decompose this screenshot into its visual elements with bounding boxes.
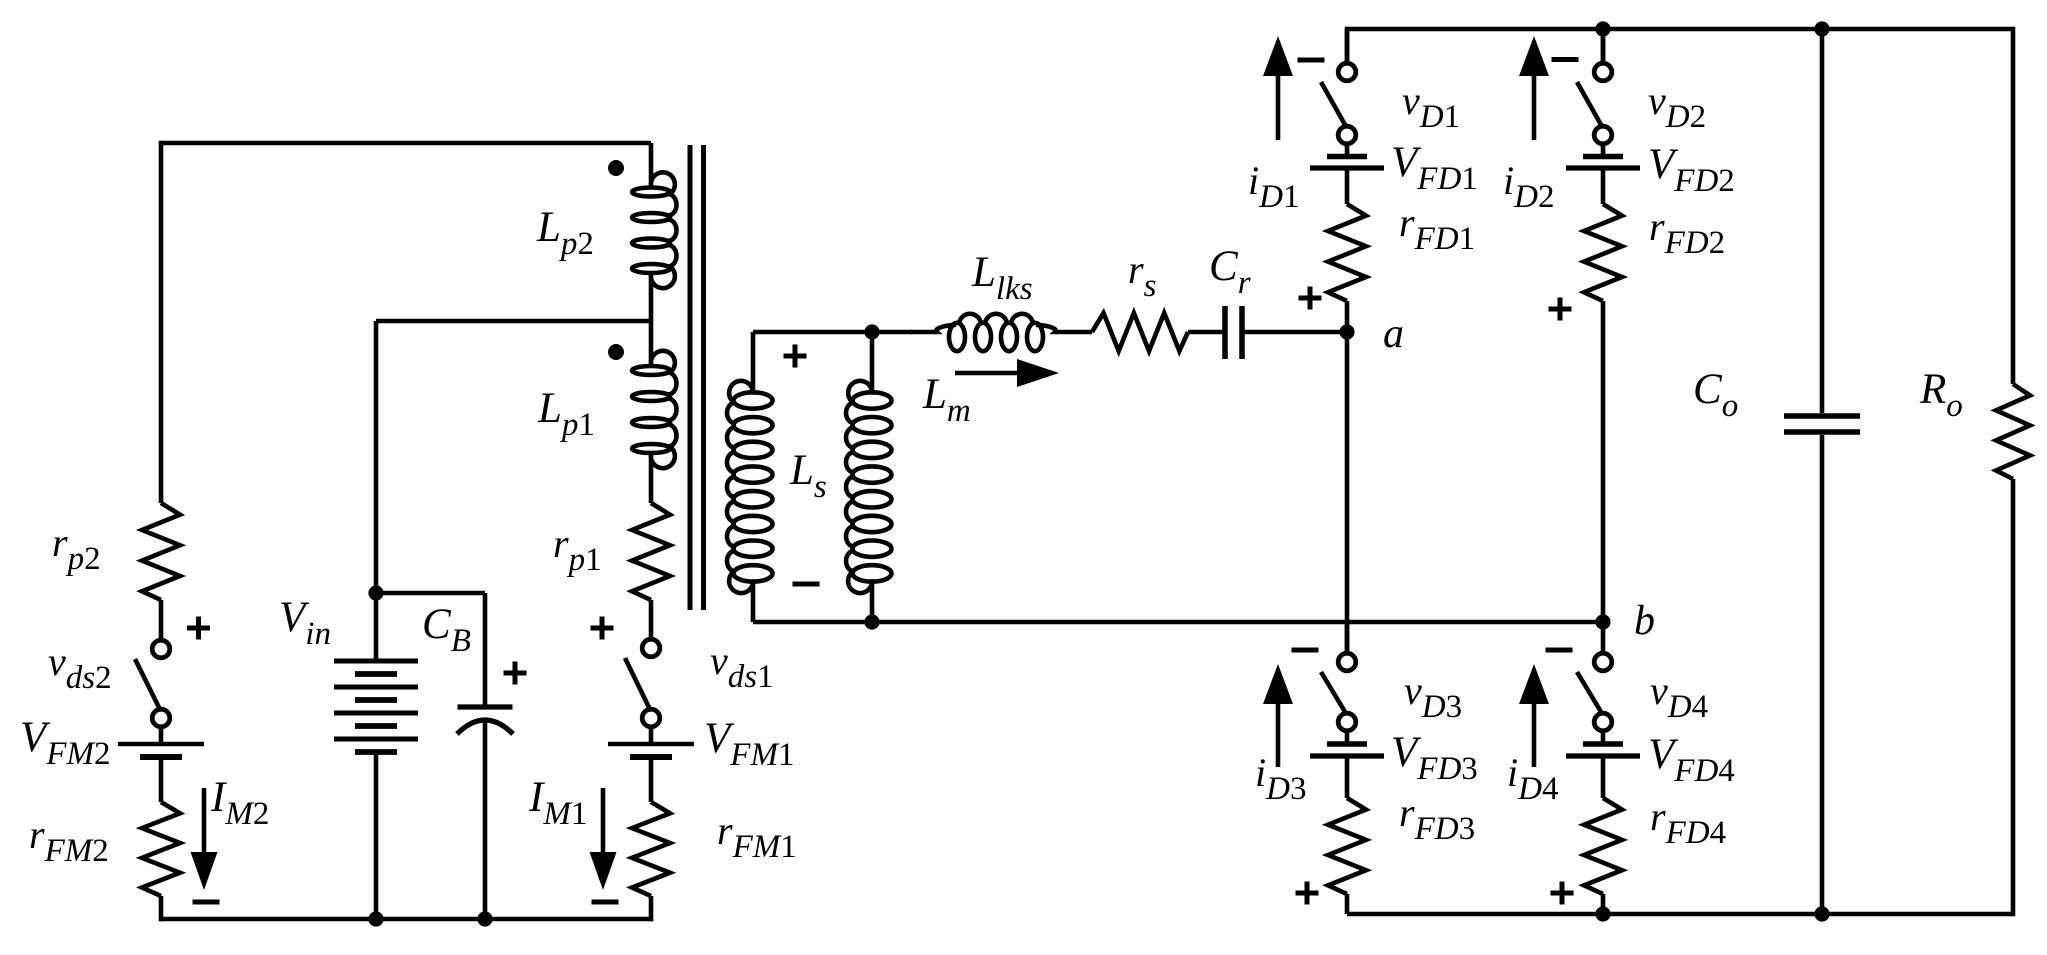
svg-text:iD3: iD3 — [1255, 750, 1306, 807]
svg-text:iD1: iD1 — [1248, 158, 1299, 215]
svg-text:Lp2: Lp2 — [536, 204, 594, 262]
svg-text:VFM1: VFM1 — [704, 715, 794, 773]
svg-text:rFD3: rFD3 — [1399, 790, 1475, 847]
svg-text:Cr: Cr — [1209, 243, 1251, 301]
svg-text:Vin: Vin — [279, 594, 331, 652]
svg-text:rp1: rp1 — [553, 521, 602, 578]
svg-text:IM1: IM1 — [528, 774, 587, 832]
svg-text:rFM1: rFM1 — [717, 808, 797, 865]
svg-text:rs: rs — [1128, 247, 1156, 304]
svg-text:VFD2: VFD2 — [1648, 141, 1735, 199]
svg-text:vD2: vD2 — [1648, 78, 1706, 135]
svg-text:VFD4: VFD4 — [1648, 731, 1735, 789]
svg-text:rFD1: rFD1 — [1399, 200, 1475, 257]
svg-text:b: b — [1634, 598, 1655, 644]
svg-text:Ro: Ro — [1919, 366, 1963, 424]
svg-text:IM2: IM2 — [210, 774, 269, 832]
svg-text:rFD2: rFD2 — [1649, 204, 1725, 261]
svg-text:VFD1: VFD1 — [1391, 139, 1478, 197]
svg-text:vds2: vds2 — [48, 639, 112, 696]
svg-text:Ls: Ls — [789, 447, 827, 505]
svg-text:vD1: vD1 — [1402, 78, 1460, 135]
svg-text:Lm: Lm — [922, 371, 971, 429]
svg-text:rFD4: rFD4 — [1650, 794, 1726, 851]
svg-text:Lp1: Lp1 — [537, 385, 595, 443]
svg-text:rFM2: rFM2 — [29, 812, 109, 869]
svg-text:VFD3: VFD3 — [1391, 729, 1478, 787]
svg-text:a: a — [1383, 311, 1404, 357]
svg-text:vD4: vD4 — [1650, 668, 1708, 725]
svg-text:Llks: Llks — [971, 249, 1033, 307]
svg-text:vD3: vD3 — [1404, 668, 1462, 725]
svg-text:VFM2: VFM2 — [20, 714, 110, 772]
svg-text:rp2: rp2 — [52, 520, 101, 577]
svg-text:CB: CB — [422, 601, 471, 659]
svg-text:iD2: iD2 — [1503, 158, 1554, 215]
svg-text:Co: Co — [1693, 366, 1738, 424]
svg-text:vds1: vds1 — [710, 638, 774, 695]
